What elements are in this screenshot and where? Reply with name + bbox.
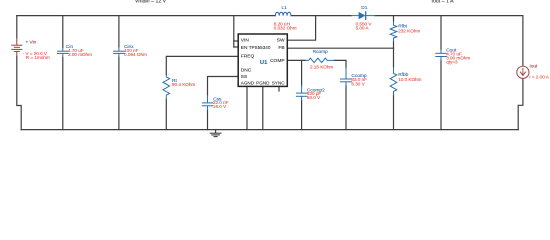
svg-text:PGND: PGND bbox=[256, 81, 270, 86]
svg-text:Iout: Iout bbox=[530, 63, 539, 68]
svg-text:Iout = 1 A: Iout = 1 A bbox=[432, 0, 455, 5]
svg-text:Ccomp: Ccomp bbox=[351, 73, 367, 79]
svg-text:Ccomp2: Ccomp2 bbox=[307, 87, 325, 93]
svg-text:COMP: COMP bbox=[270, 58, 285, 64]
svg-text:Cin: Cin bbox=[66, 44, 74, 50]
svg-text:Rt: Rt bbox=[172, 78, 177, 84]
svg-text:AGND: AGND bbox=[241, 81, 255, 86]
svg-text:Css: Css bbox=[213, 97, 222, 103]
svg-text:SYNC: SYNC bbox=[272, 81, 285, 86]
svg-text:Rfbb: Rfbb bbox=[398, 72, 408, 78]
svg-text:qty=3: qty=3 bbox=[446, 59, 458, 64]
svg-text:SS: SS bbox=[241, 74, 248, 80]
svg-text:6.30 V: 6.30 V bbox=[351, 82, 365, 87]
svg-text:U1: U1 bbox=[260, 60, 268, 66]
svg-text:3.00 mOhm: 3.00 mOhm bbox=[68, 52, 92, 57]
svg-text:L1: L1 bbox=[282, 5, 288, 11]
svg-text:0.032 Ohm: 0.032 Ohm bbox=[274, 26, 297, 31]
svg-text:FREQ: FREQ bbox=[241, 53, 255, 59]
svg-text:TPS55340: TPS55340 bbox=[249, 45, 271, 50]
svg-text:Rfbt: Rfbt bbox=[398, 24, 407, 30]
svg-text:16.0 V: 16.0 V bbox=[213, 104, 227, 109]
svg-text:+ Vin: + Vin bbox=[26, 40, 37, 45]
svg-text:Rcomp: Rcomp bbox=[313, 49, 329, 55]
svg-text:DNC: DNC bbox=[241, 68, 252, 74]
svg-text:FB: FB bbox=[278, 45, 284, 51]
svg-text:I = 2.00 A: I = 2.00 A bbox=[529, 74, 549, 79]
svg-text:VIN: VIN bbox=[241, 37, 250, 43]
svg-text:Vmain = 12 V: Vmain = 12 V bbox=[135, 0, 167, 5]
svg-text:50.0 V: 50.0 V bbox=[307, 95, 321, 100]
svg-text:2.15 KOhm: 2.15 KOhm bbox=[310, 65, 333, 70]
svg-text:5.00 A: 5.00 A bbox=[356, 26, 370, 31]
svg-text:D1: D1 bbox=[361, 5, 367, 11]
svg-text:EN: EN bbox=[241, 45, 248, 51]
svg-text:0.064 Ohm: 0.064 Ohm bbox=[124, 52, 147, 57]
svg-text:Cinx: Cinx bbox=[124, 44, 134, 50]
svg-text:Cout: Cout bbox=[446, 47, 457, 53]
svg-text:R = 1mohm: R = 1mohm bbox=[26, 55, 50, 60]
svg-text:SW: SW bbox=[277, 37, 285, 43]
